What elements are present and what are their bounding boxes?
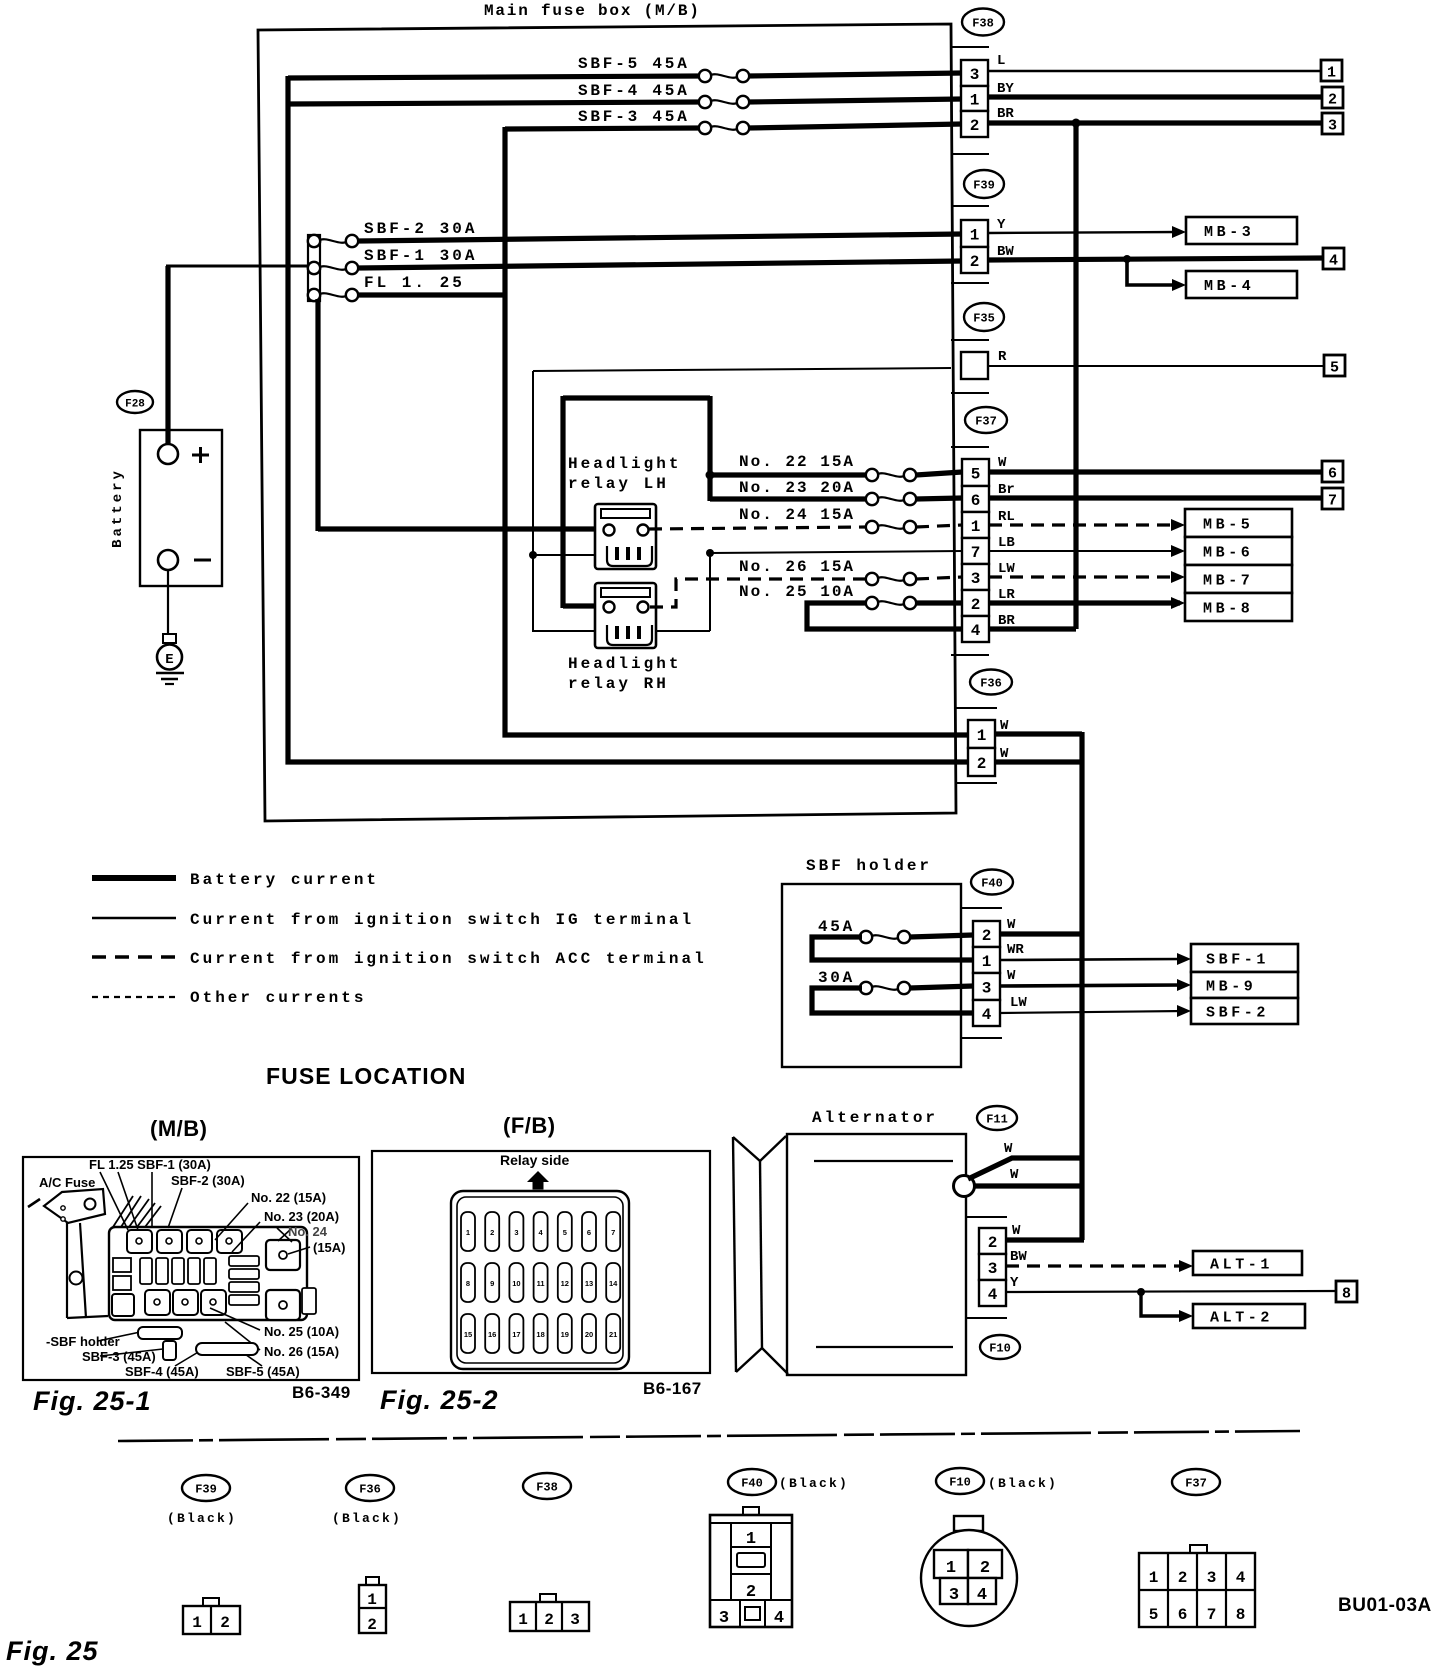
svg-text:Fig. 25: Fig. 25 [6, 1636, 99, 1666]
svg-text:ALT-2: ALT-2 [1210, 1310, 1273, 1327]
wire relay coil bus [563, 395, 710, 400]
svg-text:1: 1 [946, 1559, 956, 1578]
svg-text:4: 4 [1236, 1569, 1246, 1587]
terminal 8 [1336, 1281, 1357, 1302]
svg-text:20: 20 [585, 1330, 593, 1339]
MB-3 box [1186, 217, 1297, 244]
svg-text:No. 24: No. 24 [288, 1224, 328, 1239]
connector F38 face label [523, 1473, 571, 1499]
svg-text:F40: F40 [741, 1477, 763, 1491]
svg-text:15: 15 [464, 1330, 472, 1339]
svg-text:21: 21 [609, 1330, 617, 1339]
wire SBF-5 to F38 pin 3 [748, 73, 962, 76]
svg-text:SBF-4 (45A): SBF-4 (45A) [125, 1364, 199, 1379]
wire battery bus down left [315, 299, 320, 531]
svg-text:F38: F38 [972, 17, 994, 31]
svg-text:10: 10 [512, 1279, 520, 1288]
svg-text:-SBF holder: -SBF holder [46, 1334, 120, 1349]
svg-text:4: 4 [971, 622, 981, 640]
svg-text:RL: RL [998, 509, 1015, 525]
svg-text:F37: F37 [1185, 1477, 1207, 1491]
svg-text:SBF-3 (45A): SBF-3 (45A) [82, 1349, 156, 1364]
terminal 6 [1322, 461, 1343, 482]
svg-text:5: 5 [1330, 360, 1339, 377]
svg-text:4: 4 [977, 1586, 987, 1605]
wire LB to F37 pin 7 [710, 551, 962, 553]
svg-text:W: W [998, 455, 1007, 471]
svg-text:2: 2 [544, 1611, 554, 1629]
svg-text:F36: F36 [980, 677, 1002, 691]
svg-text:2: 2 [982, 927, 992, 945]
svg-text:relay LH: relay LH [568, 475, 669, 493]
svg-text:2: 2 [977, 755, 987, 773]
svg-text:45A: 45A [818, 918, 855, 936]
svg-text:Headlight: Headlight [568, 655, 681, 673]
svg-text:6: 6 [971, 492, 981, 510]
connector F37 label [965, 407, 1007, 433]
connector F10 label [980, 1335, 1020, 1359]
svg-text:8: 8 [466, 1279, 470, 1288]
connector F36 label [970, 670, 1012, 695]
wire W vertical bus to alternator [1079, 732, 1084, 1240]
svg-text:Other currents: Other currents [190, 989, 366, 1007]
svg-text:Fig. 25-1: Fig. 25-1 [33, 1386, 152, 1416]
svg-text:SBF-1 30A: SBF-1 30A [364, 247, 477, 265]
svg-text:SBF-4 45A: SBF-4 45A [578, 82, 690, 100]
svg-text:3: 3 [1207, 1569, 1217, 1587]
connector F37 face [1190, 1545, 1207, 1553]
connector F38 pins [951, 46, 989, 48]
svg-text:(Black): (Black) [332, 1511, 402, 1526]
svg-text:2: 2 [988, 1234, 998, 1252]
svg-text:2: 2 [490, 1228, 494, 1237]
svg-text:14: 14 [609, 1279, 618, 1288]
svg-text:3: 3 [570, 1611, 580, 1629]
MB-6 box [1185, 537, 1292, 565]
MB-9 box [1191, 972, 1298, 998]
svg-text:No. 26 15A: No. 26 15A [739, 558, 855, 576]
svg-text:2: 2 [980, 1559, 990, 1578]
svg-text:SBF-1: SBF-1 [1206, 952, 1269, 969]
svg-text:LW: LW [998, 561, 1015, 577]
svg-text:(Black): (Black) [167, 1511, 237, 1526]
svg-text:BU01-03A: BU01-03A [1338, 1595, 1432, 1616]
MB-5 box [1185, 509, 1292, 537]
svg-text:SBF-5 45A: SBF-5 45A [578, 55, 690, 73]
wire battery negative to ground [167, 570, 169, 638]
svg-text:2: 2 [970, 117, 980, 135]
M/B fusebox drawing [44, 1189, 105, 1223]
svg-text:16: 16 [488, 1330, 496, 1339]
svg-text:R: R [998, 349, 1007, 365]
fig 25-2 frame [372, 1151, 710, 1373]
svg-text:1: 1 [971, 518, 981, 536]
wire SBF-4 to F38 pin 1 [748, 99, 962, 102]
svg-text:1: 1 [1327, 65, 1336, 82]
F/B fuse panel [451, 1191, 629, 1369]
connector F11 label [977, 1106, 1017, 1130]
legend IG current [92, 917, 176, 919]
svg-text:MB-3: MB-3 [1204, 224, 1254, 241]
terminal 5 [1324, 355, 1345, 376]
svg-text:E: E [165, 652, 173, 668]
wire relay RH common [533, 630, 710, 632]
svg-text:3: 3 [1328, 118, 1337, 135]
terminal 4 [1323, 248, 1344, 269]
MB-4 box [1186, 271, 1297, 298]
wire FL to node x505 [358, 292, 505, 297]
svg-text:No. 22 15A: No. 22 15A [739, 453, 855, 471]
svg-text:F39: F39 [973, 179, 995, 193]
svg-text:1: 1 [977, 727, 987, 745]
svg-text:4: 4 [774, 1609, 784, 1628]
wire thin box left side [532, 371, 534, 632]
svg-text:(Black): (Black) [988, 1476, 1058, 1491]
svg-text:Current from ignition switch I: Current from ignition switch IG terminal [190, 911, 694, 929]
svg-text:FUSE LOCATION: FUSE LOCATION [266, 1063, 466, 1089]
svg-text:Relay side: Relay side [500, 1152, 569, 1168]
svg-text:8: 8 [1342, 1286, 1351, 1303]
svg-text:LB: LB [998, 535, 1015, 551]
svg-text:F11: F11 [986, 1113, 1008, 1127]
svg-text:7: 7 [971, 544, 981, 562]
svg-text:1: 1 [466, 1228, 470, 1237]
svg-text:Y: Y [997, 217, 1006, 233]
svg-text:LW: LW [1010, 995, 1027, 1011]
svg-text:4: 4 [1329, 253, 1338, 270]
svg-text:No. 23 (20A): No. 23 (20A) [264, 1209, 339, 1224]
svg-text:BR: BR [997, 106, 1014, 122]
svg-text:W: W [1007, 968, 1016, 984]
connector F35 pin [951, 339, 989, 341]
svg-text:8: 8 [1236, 1606, 1246, 1624]
fig 25-1 frame [23, 1157, 359, 1380]
connector F39 label [964, 170, 1004, 198]
svg-text:MB-5: MB-5 [1203, 517, 1253, 534]
svg-text:SBF holder: SBF holder [806, 857, 932, 875]
svg-text:B6-167: B6-167 [643, 1379, 702, 1398]
svg-text:2: 2 [220, 1614, 230, 1632]
ALT-2 box [1193, 1304, 1305, 1328]
relay LH K1 [595, 504, 656, 569]
svg-text:SBF-2 (30A): SBF-2 (30A) [171, 1173, 245, 1188]
svg-text:No. 22 (15A): No. 22 (15A) [251, 1190, 326, 1205]
connector F36 face label [346, 1475, 394, 1501]
ALT-1 box [1193, 1251, 1302, 1275]
connector F10 pins on alternator [966, 1216, 1007, 1218]
svg-text:relay RH: relay RH [568, 675, 669, 693]
connector F10 face label [936, 1468, 984, 1494]
MB-7 box [1185, 565, 1292, 593]
svg-text:Y: Y [1010, 1275, 1019, 1291]
svg-text:WR: WR [1007, 942, 1024, 958]
alternator GEN1 body [787, 1134, 966, 1375]
svg-text:(F/B): (F/B) [503, 1113, 556, 1138]
SBF-1 box [1191, 944, 1298, 972]
svg-text:3: 3 [970, 66, 980, 84]
svg-text:Headlight: Headlight [568, 455, 681, 473]
wire BW branch to MB-4 [1123, 255, 1131, 263]
svg-text:Main fuse box (M/B): Main fuse box (M/B) [484, 2, 701, 20]
connector F10 face [954, 1516, 983, 1531]
svg-text:MB-7: MB-7 [1203, 573, 1253, 590]
svg-text:F36: F36 [359, 1483, 381, 1497]
wire vertical bus x288 to F36 pin 2 [288, 76, 970, 762]
svg-text:A/C Fuse: A/C Fuse [39, 1175, 95, 1190]
ground E1 [163, 634, 176, 643]
svg-text:Current from ignition switch A: Current from ignition switch ACC termina… [190, 950, 707, 968]
svg-text:1: 1 [367, 1591, 377, 1609]
wire SBF-2 to F39 pin 1 [358, 234, 962, 241]
svg-text:3: 3 [719, 1609, 729, 1628]
svg-text:1: 1 [982, 953, 992, 971]
wire vertical bus x505 to F36 pin 1 [505, 127, 970, 735]
connector F36 face [366, 1577, 379, 1585]
svg-text:F39: F39 [195, 1483, 217, 1497]
svg-text:2: 2 [367, 1616, 377, 1634]
svg-text:Battery: Battery [110, 468, 126, 548]
legend ACC current [92, 955, 176, 958]
legend battery current [92, 875, 176, 881]
fusible link bar [308, 235, 320, 301]
node junction No.22 [706, 471, 715, 480]
connector F40 face [743, 1507, 759, 1515]
wire BR bus down to F37 pin 4 [1072, 119, 1081, 128]
svg-text:7: 7 [1207, 1606, 1217, 1624]
svg-text:5: 5 [1149, 1606, 1159, 1624]
svg-text:1: 1 [746, 1530, 756, 1549]
svg-text:17: 17 [512, 1330, 520, 1339]
svg-text:3: 3 [982, 980, 992, 998]
terminal 3 [1322, 113, 1343, 134]
svg-text:3: 3 [514, 1228, 518, 1237]
svg-text:W: W [1007, 917, 1016, 933]
svg-text:5: 5 [971, 466, 981, 484]
svg-text:MB-9: MB-9 [1206, 979, 1256, 996]
wire Y branch to ALT-2 [1137, 1288, 1145, 1296]
svg-text:FL 1. 25: FL 1. 25 [364, 274, 465, 292]
svg-text:SBF-3 45A: SBF-3 45A [578, 108, 690, 126]
terminal 2 [1322, 87, 1343, 108]
svg-text:1: 1 [192, 1614, 202, 1632]
svg-text:6: 6 [1328, 466, 1337, 483]
wire SBF-5 left [288, 76, 700, 78]
connector F39 face label [182, 1475, 230, 1501]
svg-text:F10: F10 [949, 1476, 971, 1490]
svg-text:SBF-5 (45A): SBF-5 (45A) [226, 1364, 300, 1379]
svg-text:(15A): (15A) [313, 1240, 346, 1255]
relay side arrow [527, 1171, 549, 1182]
svg-text:SBF-2 30A: SBF-2 30A [364, 220, 477, 238]
connector F38 label [962, 9, 1004, 36]
svg-text:FL 1.25 SBF-1 (30A): FL 1.25 SBF-1 (30A) [89, 1157, 211, 1172]
connector F39 face [203, 1598, 219, 1606]
svg-text:F28: F28 [125, 399, 145, 411]
wire node to F35 R (thin box top) [533, 368, 951, 371]
svg-text:9: 9 [490, 1279, 494, 1288]
svg-text:No. 24 15A: No. 24 15A [739, 506, 855, 524]
svg-text:(Black): (Black) [779, 1476, 849, 1491]
svg-text:2: 2 [746, 1583, 756, 1602]
svg-text:12: 12 [561, 1279, 569, 1288]
F/B fuse slots [461, 1212, 475, 1251]
terminal 7 [1322, 488, 1343, 509]
svg-text:3: 3 [971, 570, 981, 588]
svg-text:ALT-1: ALT-1 [1210, 1257, 1273, 1274]
wire LB right vertical [709, 553, 711, 631]
relay RH K2 [595, 583, 656, 648]
svg-text:SBF-2: SBF-2 [1206, 1005, 1269, 1022]
SBF holder shapes below box [138, 1327, 182, 1339]
SBF-2 box [1191, 998, 1298, 1024]
svg-text:F40: F40 [981, 877, 1003, 891]
svg-text:18: 18 [536, 1330, 544, 1339]
svg-text:W: W [1012, 1223, 1021, 1239]
svg-text:No. 26 (15A): No. 26 (15A) [264, 1344, 339, 1359]
svg-text:MB-6: MB-6 [1203, 545, 1253, 562]
svg-text:2: 2 [971, 596, 981, 614]
svg-text:Alternator: Alternator [812, 1109, 938, 1127]
svg-text:3: 3 [949, 1586, 959, 1605]
svg-text:Battery current: Battery current [190, 871, 379, 889]
terminal 1 [1321, 60, 1342, 81]
svg-text:No. 25 (10A): No. 25 (10A) [264, 1324, 339, 1339]
svg-text:30A: 30A [818, 969, 855, 987]
alternator pulley [733, 1137, 736, 1372]
svg-text:4: 4 [982, 1006, 992, 1024]
svg-text:5: 5 [563, 1228, 567, 1237]
wire SBF-3 left [505, 128, 700, 129]
node junction LB right [706, 549, 714, 557]
wire battery positive to fuse bar [165, 266, 170, 445]
svg-text:7: 7 [611, 1228, 615, 1237]
alternator B terminal [954, 1176, 975, 1197]
svg-text:F35: F35 [973, 312, 995, 326]
SBF holder box [782, 884, 961, 1067]
svg-text:MB-4: MB-4 [1204, 278, 1254, 295]
svg-text:1: 1 [1149, 1569, 1159, 1587]
svg-text:1: 1 [970, 227, 980, 245]
svg-text:F37: F37 [975, 415, 997, 429]
svg-text:F10: F10 [989, 1342, 1011, 1356]
svg-text:W: W [1004, 1141, 1013, 1157]
battery B1 [140, 430, 222, 586]
connector F38 face [540, 1594, 556, 1602]
svg-text:4: 4 [988, 1286, 998, 1304]
wire SBF-1 to F39 pin 2 [358, 261, 962, 268]
svg-text:11: 11 [537, 1279, 545, 1288]
connector F36 pins [956, 707, 997, 709]
svg-text:3: 3 [988, 1260, 998, 1278]
svg-text:7: 7 [1328, 493, 1337, 510]
connector F40 pins [961, 907, 1002, 909]
svg-text:W: W [1010, 1167, 1019, 1183]
svg-text:6: 6 [1178, 1606, 1188, 1624]
svg-text:L: L [997, 53, 1005, 69]
wire LB left to relay LH [533, 554, 606, 556]
svg-text:Fig. 25-2: Fig. 25-2 [380, 1385, 499, 1415]
M/B leader lines [100, 1172, 128, 1230]
node junction LB left [529, 551, 537, 559]
main fuse box M/B outline [258, 24, 956, 821]
connector F39 pins [951, 205, 989, 207]
connector F40 label [971, 870, 1013, 895]
svg-text:(M/B): (M/B) [150, 1116, 207, 1141]
connector F40 face label [728, 1469, 776, 1495]
svg-text:13: 13 [585, 1279, 593, 1288]
MB-8 box [1185, 593, 1292, 621]
connector F37 face label [1172, 1469, 1220, 1495]
svg-text:No. 25 10A: No. 25 10A [739, 583, 855, 601]
svg-text:2: 2 [970, 253, 980, 271]
svg-text:6: 6 [587, 1228, 591, 1237]
svg-text:2: 2 [1328, 92, 1337, 109]
separator line [118, 1431, 1300, 1441]
svg-text:B6-349: B6-349 [292, 1383, 351, 1402]
connector F28 label [117, 391, 153, 413]
svg-text:1: 1 [518, 1611, 528, 1629]
svg-text:No. 23 20A: No. 23 20A [739, 479, 855, 497]
connector F35 label [964, 303, 1004, 331]
svg-text:MB-8: MB-8 [1203, 601, 1253, 618]
connector F37 pins [951, 446, 989, 448]
svg-text:BW: BW [1010, 1249, 1027, 1265]
wire SBF-3 to F38 pin 2 [748, 124, 962, 128]
svg-text:19: 19 [561, 1330, 569, 1339]
wire SBF-4 left [288, 102, 700, 104]
svg-text:1: 1 [970, 92, 980, 110]
svg-text:F38: F38 [536, 1481, 558, 1495]
svg-text:2: 2 [1178, 1569, 1188, 1587]
legend other currents [92, 996, 176, 998]
